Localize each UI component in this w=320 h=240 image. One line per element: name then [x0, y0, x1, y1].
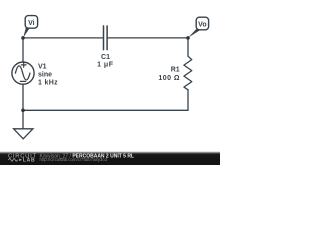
- svg-text:R1: R1: [171, 67, 180, 74]
- svg-text:100 Ω: 100 Ω: [158, 75, 180, 82]
- svg-text:Vi: Vi: [28, 20, 35, 27]
- svg-text:1 kHz: 1 kHz: [38, 80, 58, 87]
- svg-text:C1: C1: [101, 54, 110, 61]
- svg-text:sine: sine: [38, 72, 52, 79]
- svg-text:1 μF: 1 μF: [97, 61, 114, 68]
- svg-text:http://circuitlab.com/c/75bb7a: http://circuitlab.com/c/75bb7a8y3cd: [40, 157, 108, 162]
- svg-text:Vo: Vo: [198, 22, 206, 29]
- svg-text:LAB: LAB: [23, 157, 36, 163]
- svg-text:V1: V1: [38, 64, 47, 71]
